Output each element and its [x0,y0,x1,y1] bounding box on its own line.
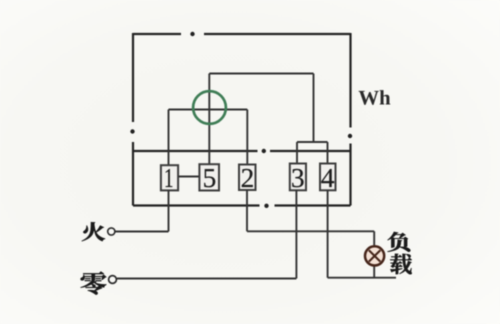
junction dot on top edge [190,32,194,36]
meter enclosure right edge (with gap) [349,33,351,206]
wire: bracket down to terminal 4 [327,142,329,164]
wire: terminal 3 down to neutral [295,190,297,278]
wire: terminal 1 down to live input [168,190,170,232]
pin number 2 [242,169,253,187]
wire: terminal 4 to load bottom [328,277,396,279]
wire: live input horizontal [115,231,169,233]
wire: terminal 4 down [327,190,329,277]
label 火 (live wire) [82,222,105,241]
live input terminal (open circle) [108,228,115,235]
junction dot on terminal rail [262,149,266,153]
junction dot on left edge [130,129,134,133]
meter enclosure bottom edge (with gap) [133,204,351,206]
meter enclosure top edge (with gap) [133,33,351,35]
terminal box 4 [320,164,336,191]
pin number 3 [292,169,303,187]
wire: drop to terminal 1 [168,110,170,167]
pin number 5 [204,169,215,187]
meter label Wh [359,90,391,105]
pin number 1 [166,169,173,187]
wire: drop to terminal 2 [246,110,248,165]
terminal box 2 [239,165,256,191]
terminal strip top rail (with gap) [133,150,351,152]
wire: lamp top lead [373,231,375,245]
wire: bracket down to terminal 3 [296,142,298,164]
wire: terminal 2 down [246,190,248,231]
wire: bracket over terminals 3-4 [297,141,328,143]
label 载 (load, lower char) [390,254,412,275]
terminal box 1 [161,165,178,190]
neutral input terminal (open circle) [109,276,117,284]
terminal box 3 [290,164,306,191]
link between terminals 1 and 5 [179,176,200,178]
load lamp (circle with X) [365,246,384,265]
junction dot on bottom edge [264,204,268,208]
terminal box 5 [199,164,219,190]
meter enclosure left edge (with gap) [132,33,134,206]
label 负 (load, upper char) [388,232,411,252]
wire: current-coil horizontal link terminal 1 to terminal 2 [169,109,248,111]
watt-hour meter coil (green circle) [193,91,226,124]
wire: voltage-coil vertical through coil to terminal 5 [208,74,210,166]
junction dot on right edge [348,134,352,138]
label 零 (neutral wire) [81,272,107,295]
wire: voltage tap drop toward terminals 3-4 [313,74,315,143]
wire: voltage tap horizontal run to right [209,73,313,75]
wire: neutral input horizontal [117,278,296,280]
pin number 4 [321,169,334,187]
wire: terminal 2 to lamp horizontal [247,230,374,232]
wire: lamp bottom lead [373,266,375,277]
